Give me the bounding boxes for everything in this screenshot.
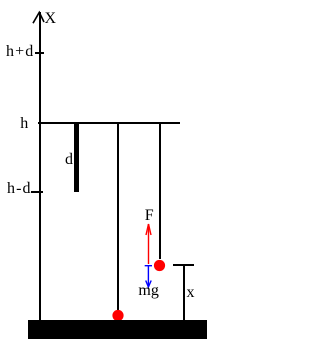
axis label X — [45, 11, 57, 27]
ball on right string — [154, 260, 165, 271]
label mg — [138, 283, 158, 299]
force arrow F (red, up) — [146, 224, 151, 264]
x measure vertical line — [183, 264, 185, 320]
ceiling line at h — [38, 122, 180, 124]
label h+d — [6, 44, 34, 60]
label h-d — [7, 181, 32, 197]
label x — [187, 285, 195, 301]
tick h-d — [31, 191, 43, 193]
label h — [20, 116, 28, 132]
thick rod of length d — [74, 122, 79, 192]
balls and force arrows — [0, 0, 218, 346]
axis arrowhead — [0, 0, 60, 30]
middle string — [117, 122, 119, 310]
right string — [159, 122, 161, 259]
force arrow mg (blue, down) — [145, 266, 152, 287]
label F — [145, 208, 154, 224]
ground slab — [28, 320, 207, 339]
label d — [65, 152, 73, 168]
tick h+d — [35, 52, 44, 54]
axis X vertical line — [39, 12, 41, 320]
ball on ground — [112, 310, 123, 321]
x measure top tick — [173, 264, 194, 266]
